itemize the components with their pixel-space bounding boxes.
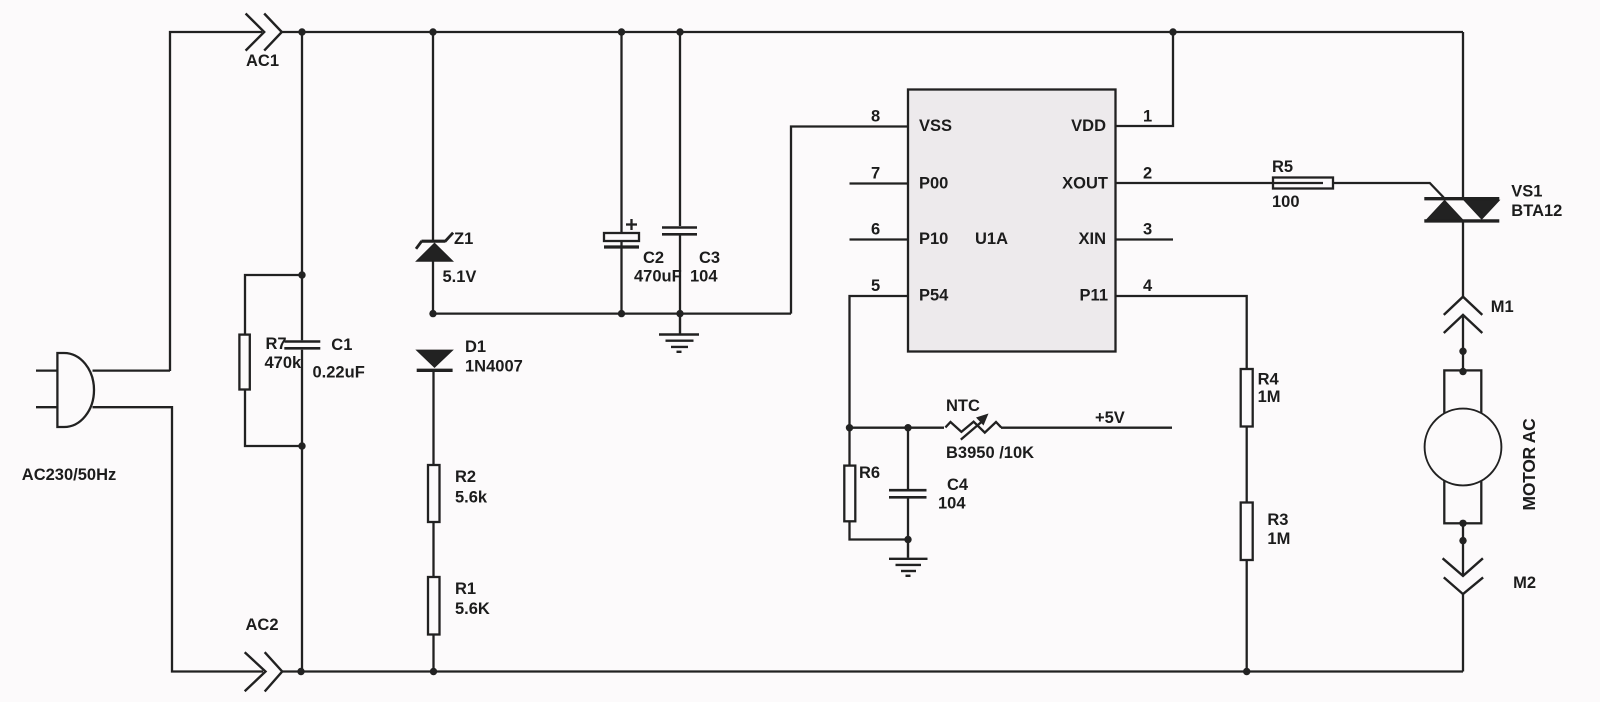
svg-text:P11: P11 [1080,287,1108,305]
svg-text:5: 5 [871,277,880,295]
wire R2 to R1 [432,522,434,577]
node R3 bottom [1243,668,1250,675]
svg-text:5.6k: 5.6k [455,489,488,507]
wire R4 to R3 [1246,427,1248,503]
wire triac to M1 [1462,222,1464,297]
capacitor C2 electrolytic [604,219,639,247]
node C2 top [618,28,625,35]
svg-text:R6: R6 [859,464,880,482]
node P54/R6 [846,424,853,431]
node R7 top [298,271,305,278]
svg-text:4: 4 [1143,277,1153,295]
motor box [1444,370,1481,523]
resistor R4 [1241,369,1253,427]
diode D1 [417,350,453,370]
resistor R6 [844,466,855,522]
svg-text:0.22uF: 0.22uF [313,364,365,382]
plug AC230/50Hz [36,353,94,427]
node AC2 [297,668,304,675]
wire R3 to bottom rail [1246,560,1248,672]
wire mid rail y=313.6 [433,312,791,314]
svg-text:6: 6 [871,221,880,239]
capacitor C4 [889,490,927,497]
connector M2 [1443,558,1484,594]
wire C2 branch [620,32,622,233]
ground under C3 [659,314,699,352]
connector M1 [1444,297,1483,333]
svg-text:XOUT: XOUT [1062,175,1108,193]
svg-text:R1: R1 [455,580,476,598]
connector AC2 [245,652,283,691]
node VDD top [1169,28,1176,35]
svg-text:Z1: Z1 [454,230,473,248]
pin numbers and names [871,108,1153,305]
svg-text:D1: D1 [465,338,486,356]
zener diode Z1 [416,233,453,261]
svg-text:100: 100 [1272,193,1300,211]
svg-text:1M: 1M [1267,530,1290,548]
svg-text:3: 3 [1143,221,1152,239]
svg-text:XIN: XIN [1078,230,1106,248]
thermistor arrow [961,414,989,440]
svg-text:C2: C2 [643,249,664,267]
wire C4 bottom [907,498,909,540]
svg-text:104: 104 [690,268,718,286]
wire P11 pin 4 [1116,296,1247,369]
wire M1 to motor [1462,316,1464,371]
node R1 bottom [430,668,437,675]
wire pin 5 P54 [850,296,909,428]
wire R6 top [848,428,850,466]
node M1 bottom [1459,348,1466,355]
resistor R3 [1241,503,1253,561]
svg-text:VSS: VSS [919,117,952,135]
resistor R5 [1273,178,1333,189]
capacitor C1 [284,342,320,349]
ground under C4 [889,540,928,576]
wire R7 branch top [245,275,302,335]
wire C3 branch [679,32,681,226]
thermistor NTC zigzag [945,422,1001,433]
svg-text:B3950 /10K: B3950 /10K [946,444,1034,462]
svg-text:1M: 1M [1258,388,1281,406]
wire NTC to +5V [1001,427,1172,429]
pin 6 stub [850,238,909,240]
wire C4 top [907,428,909,489]
svg-text:P10: P10 [919,230,948,248]
wire vertical rail x=302 [301,32,303,340]
svg-text:2: 2 [1143,165,1152,183]
wire XOUT pin 2 to R5 [1116,182,1324,184]
wire R6 bottom [850,521,909,539]
svg-text:MOTOR AC: MOTOR AC [1519,418,1539,511]
node motor top [1459,368,1466,375]
pin 3 XIN stub [1116,238,1174,240]
node C4 bottom [904,536,911,543]
node C2 bottom [618,310,625,317]
svg-text:P54: P54 [919,287,949,305]
svg-text:U1A: U1A [975,230,1008,248]
IC U1A box [908,90,1116,352]
svg-text:VDD: VDD [1071,117,1106,135]
svg-text:C4: C4 [947,476,969,494]
svg-text:C3: C3 [699,249,720,267]
wire zener branch [432,32,434,241]
svg-text:8: 8 [871,108,880,126]
svg-text:R4: R4 [1258,371,1280,389]
wire plug bottom down to bottom rail [93,407,264,671]
svg-text:R3: R3 [1267,511,1288,529]
pin 7 stub [850,182,909,184]
wire top rail down to triac [1462,32,1464,197]
svg-text:R7: R7 [266,335,287,353]
node R7 bottom [298,442,305,449]
connector AC1 [246,14,282,51]
svg-text:NTC: NTC [946,397,980,415]
svg-text:AC230/50Hz: AC230/50Hz [22,466,116,484]
triac VS1 [1424,199,1499,221]
svg-text:5.6K: 5.6K [455,600,490,618]
svg-text:VS1: VS1 [1511,183,1542,201]
node M2 top [1459,537,1466,544]
node C3 bottom [676,310,683,317]
node Z1 bottom [429,310,436,317]
svg-text:R2: R2 [455,468,476,486]
node C3 top [676,28,683,35]
svg-text:5.1V: 5.1V [443,268,477,286]
resistor R7 [239,335,249,390]
node motor bottom [1459,520,1466,527]
wire top rail right of AC1 [282,31,1463,33]
wire VDD pin 1 [1116,32,1174,126]
node C4 top [904,424,911,431]
svg-text:1N4007: 1N4007 [465,358,523,376]
wire motor to M2 [1462,523,1464,576]
svg-text:M2: M2 [1513,574,1536,592]
wire VSS pin 8 [791,127,908,314]
wire bottom rail right of AC2 [282,670,1463,672]
svg-text:R5: R5 [1272,158,1293,176]
svg-text:470uF: 470uF [634,268,682,286]
svg-text:BTA12: BTA12 [1511,202,1562,220]
node Z1 top [429,28,436,35]
wire R5 to triac gate [1333,183,1444,198]
svg-text:7: 7 [871,165,880,183]
node AC1/left rail [298,28,305,35]
svg-text:104: 104 [938,495,966,513]
svg-text:AC2: AC2 [246,616,279,634]
wire plug top to left rail [93,369,171,371]
svg-text:AC1: AC1 [246,52,279,70]
svg-text:470k: 470k [265,354,303,372]
svg-text:P00: P00 [919,175,948,193]
svg-text:C1: C1 [331,336,352,354]
svg-text:M1: M1 [1491,298,1514,316]
capacitor C3 [662,228,697,235]
wire M2 to bottom rail [1462,594,1464,671]
wire R7 bottom [245,390,302,447]
resistor R1 [428,577,440,635]
resistor R2 [428,465,440,522]
wire R1 to bottom rail [432,635,434,672]
motor circle [1425,409,1502,486]
wire D1 to R2 [432,371,434,465]
wire P54 node to NTC [850,427,945,429]
svg-text:+5V: +5V [1095,409,1125,427]
wire top rail left of AC1 [170,32,262,371]
svg-text:1: 1 [1143,108,1152,126]
